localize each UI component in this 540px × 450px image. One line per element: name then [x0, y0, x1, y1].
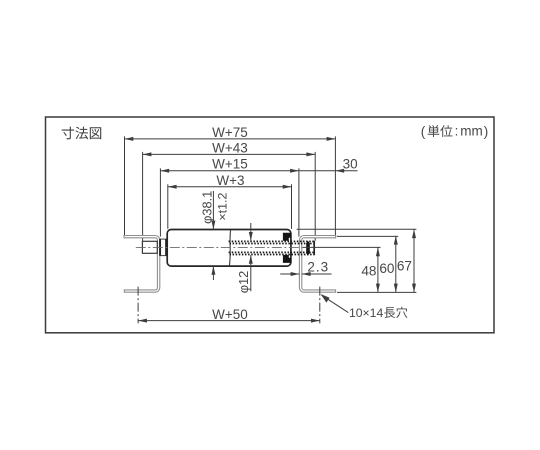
drawing frame border	[46, 117, 495, 333]
extension line frame top (60)	[337, 235, 398, 237]
extension line W+15 left	[159, 168, 161, 236]
svg-text:W+3: W+3	[216, 173, 244, 188]
dimension 30	[299, 156, 358, 172]
dimension φ38.1×t1.2	[200, 191, 230, 280]
shaft end right	[313, 241, 315, 255]
svg-text:×t1.2: ×t1.2	[215, 193, 229, 221]
extension line roller top (67)	[297, 228, 417, 230]
extension line W+75 left	[124, 136, 126, 235]
roller centerline	[136, 246, 303, 248]
right frame channel	[299, 236, 335, 293]
slot centerline right	[319, 287, 321, 324]
svg-text:2.3: 2.3	[307, 259, 329, 274]
svg-text:30: 30	[343, 156, 358, 171]
bearing right upper	[283, 233, 291, 241]
unit note (単位:mm)	[421, 124, 489, 140]
extension line W+3 left	[167, 184, 169, 229]
svg-text::: :	[455, 124, 459, 139]
extension line W+15/30 right	[298, 168, 300, 236]
svg-text:): )	[484, 124, 489, 139]
dimension W+3	[168, 173, 292, 189]
svg-text:φ12: φ12	[236, 271, 251, 294]
svg-text:mm: mm	[460, 124, 483, 139]
bearing right lower	[283, 255, 291, 263]
left frame channel	[124, 236, 160, 293]
extension line frame bottom baseline	[337, 291, 416, 293]
svg-text:10×14: 10×14	[349, 306, 383, 320]
extension line W+75/30 right	[334, 136, 336, 235]
dimension W+50	[138, 307, 320, 323]
svg-text:W+15: W+15	[212, 157, 248, 172]
svg-text:67: 67	[397, 258, 412, 273]
svg-text:(: (	[421, 124, 426, 139]
svg-text:φ38.1: φ38.1	[200, 191, 215, 224]
svg-text:W+75: W+75	[212, 125, 248, 140]
bearing cap left	[160, 239, 166, 256]
dimension W+15	[160, 157, 299, 173]
extension line W+43 left	[142, 152, 144, 242]
spring coil (dotted) lower	[229, 252, 314, 254]
dimension 67	[397, 229, 416, 292]
extension line center (48)	[303, 246, 381, 248]
section break line	[229, 230, 230, 265]
shaft hex end left	[142, 241, 157, 253]
dimension 60	[379, 236, 397, 293]
extension line W+43 right	[314, 152, 316, 241]
svg-text:48: 48	[361, 264, 376, 279]
spring coil (dotted) upper	[229, 241, 314, 243]
title 寸法図	[62, 127, 102, 140]
dimension W+75	[125, 125, 336, 141]
slot hole label 10×14長穴 with leader	[321, 294, 408, 320]
roller tube	[167, 230, 291, 267]
dimension 48	[361, 247, 380, 292]
dimension W+43	[143, 141, 316, 157]
svg-text:60: 60	[379, 261, 395, 276]
svg-text:W+50: W+50	[212, 307, 248, 322]
slot centerline left	[137, 287, 139, 324]
svg-text:W+43: W+43	[212, 141, 248, 156]
dimension 2.3 web thickness	[280, 259, 331, 276]
spring pin	[306, 241, 310, 256]
extension line W+3 right	[291, 184, 293, 229]
dimension φ12	[236, 223, 253, 293]
